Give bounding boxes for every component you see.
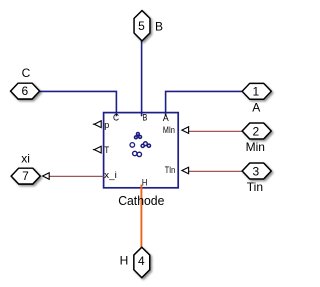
svg-text:B: B <box>143 113 148 124</box>
svg-text:H: H <box>142 178 148 189</box>
icon trefoil cluster <box>137 133 140 136</box>
svg-text:2: 2 <box>253 124 260 138</box>
wire x_i: port 7 to block input x_i <box>49 175 103 177</box>
svg-text:x_i: x_i <box>104 170 117 181</box>
port arrow TIn <box>182 167 189 174</box>
port block 3 (Tin, right) <box>242 163 271 179</box>
port arrow at port 7 output <box>43 173 50 180</box>
svg-text:Cathode: Cathode <box>118 193 164 208</box>
block Cathode outline <box>104 113 179 188</box>
icon cloud cluster <box>144 142 148 146</box>
svg-text:1: 1 <box>253 85 260 99</box>
svg-text:A: A <box>252 100 260 114</box>
port arrow T (unconnected input) <box>93 146 101 153</box>
svg-text:5: 5 <box>138 19 145 33</box>
svg-text:A: A <box>163 113 170 124</box>
svg-text:xi: xi <box>21 152 30 166</box>
port block 1 (A, right) <box>242 83 271 99</box>
wire A: port 1 to block input A <box>166 91 243 116</box>
port block 5 (B, top) <box>134 11 150 41</box>
icon bottom pair <box>133 151 137 155</box>
svg-text:p: p <box>104 120 109 131</box>
wire H: block port H to port 4 <box>140 185 142 248</box>
wire B: port 5 to block input B <box>141 40 143 116</box>
svg-text:C: C <box>113 113 119 124</box>
svg-text:4: 4 <box>138 254 145 268</box>
icon left ring <box>130 143 135 148</box>
port block 4 (H, bottom) <box>134 247 150 277</box>
svg-text:7: 7 <box>22 169 29 183</box>
port block 7 (xi, left) <box>11 168 40 184</box>
port block 6 (C, left) <box>11 83 40 99</box>
block Cathode icon (molecule circles) <box>130 133 150 157</box>
svg-text:H: H <box>120 254 129 268</box>
block port labels inside <box>104 113 175 189</box>
wire Min: block MIn to port 2 <box>189 130 243 132</box>
svg-text:C: C <box>22 66 31 80</box>
port arrow p (unconnected input) <box>93 121 101 128</box>
port block 2 (Min, right) <box>242 123 271 139</box>
svg-text:6: 6 <box>21 84 28 98</box>
svg-text:3: 3 <box>253 164 260 178</box>
wire Tin: block TIn to port 3 <box>189 170 243 172</box>
svg-text:Min: Min <box>246 140 265 154</box>
svg-text:T: T <box>104 145 109 156</box>
port arrow MIn <box>182 127 189 134</box>
svg-text:B: B <box>155 19 163 33</box>
wire C: port 6 to block input C <box>39 91 116 116</box>
svg-text:TIn: TIn <box>165 165 175 176</box>
svg-text:MIn: MIn <box>163 125 175 136</box>
svg-text:Tin: Tin <box>247 180 263 194</box>
